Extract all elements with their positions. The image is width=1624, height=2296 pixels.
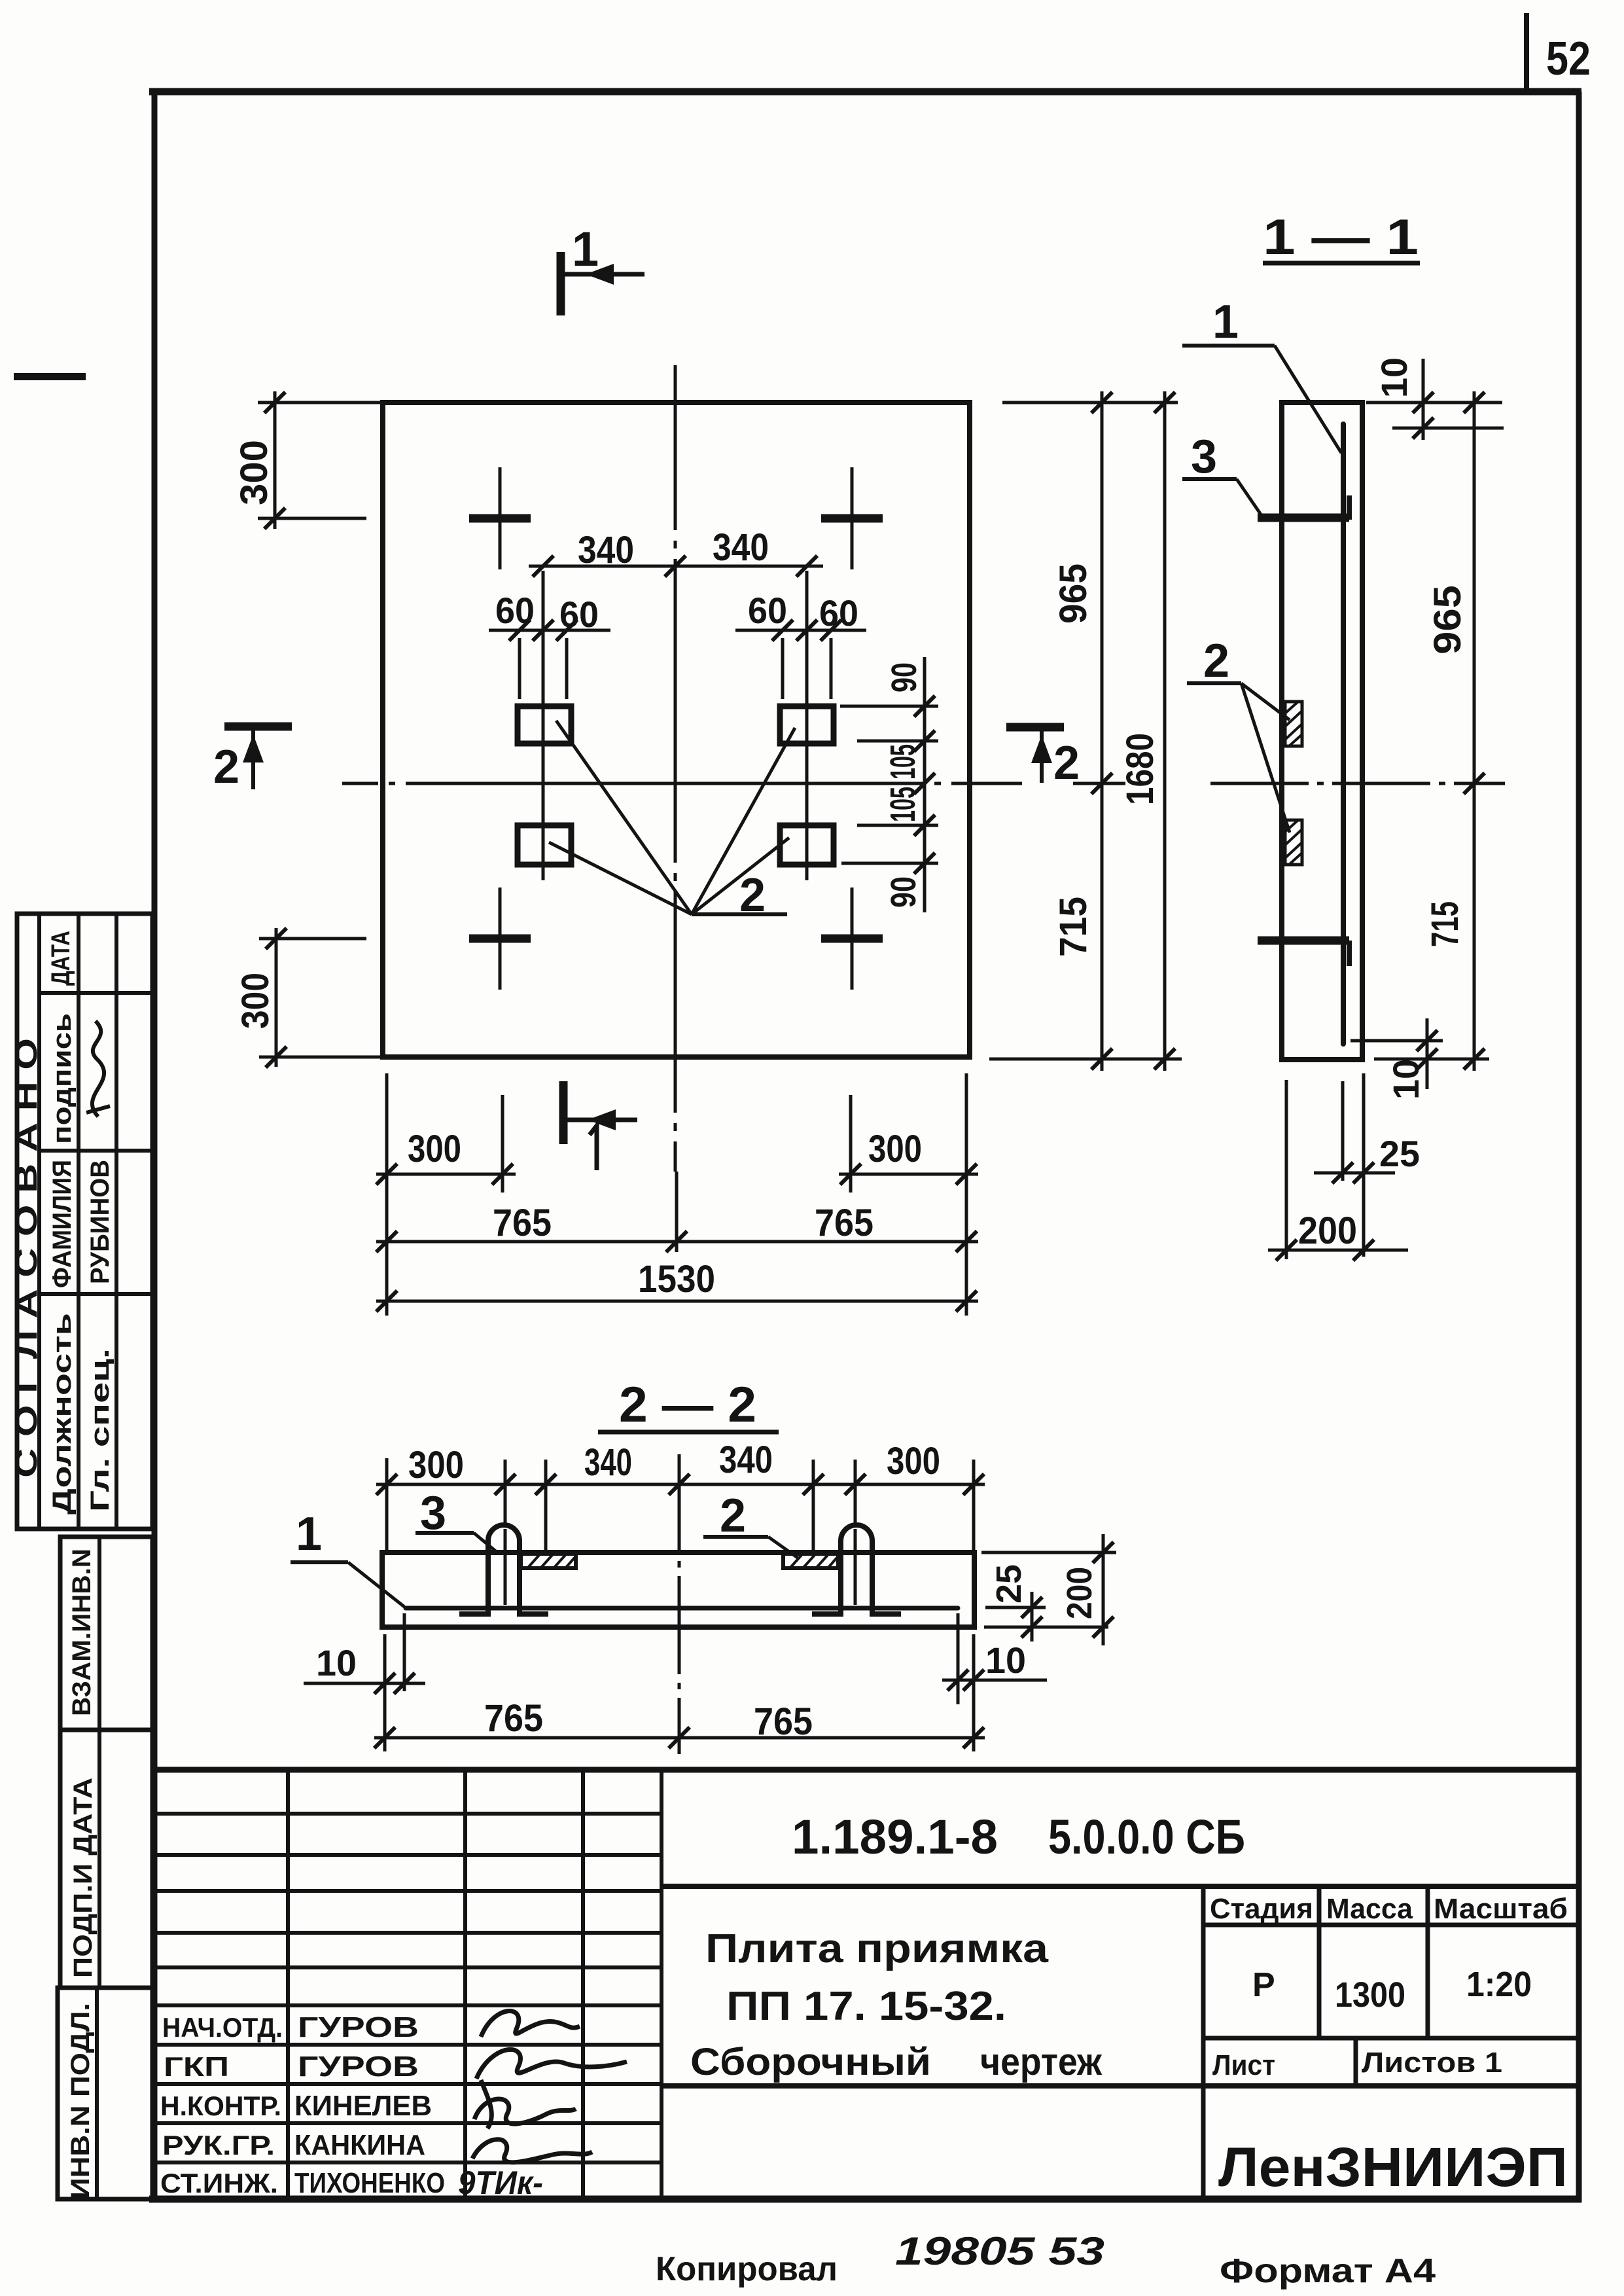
- svg-text:Масса: Масса: [1326, 1893, 1413, 1925]
- dimension 25 (section 2-2 right): [984, 1564, 1108, 1641]
- leader label 3 (section 1-1): [1182, 431, 1262, 516]
- dimension 10 (section 2-2 bottom right): [942, 1613, 1047, 1751]
- lifting loop item 3 left (section 2-2): [459, 1525, 548, 1614]
- anchor cross top-right: [821, 467, 883, 569]
- section 1-1 title: [1263, 209, 1420, 265]
- svg-text:25: 25: [1379, 1133, 1420, 1174]
- svg-text:5.0.0.0 СБ: 5.0.0.0 СБ: [1048, 1810, 1245, 1864]
- left margin black mark: [14, 373, 86, 380]
- dimension 60/60 left: [489, 590, 610, 699]
- svg-text:300: 300: [887, 1440, 940, 1482]
- svg-text:200: 200: [1060, 1567, 1099, 1619]
- leader lines to embed holes (item 2): [549, 721, 795, 914]
- svg-text:ГУРОВ: ГУРОВ: [298, 2051, 419, 2083]
- extension lines (section 1-1 left dims): [989, 403, 1182, 1059]
- svg-text:10: 10: [316, 1642, 357, 1683]
- loop axis lines (section 2-2): [505, 1529, 855, 1605]
- dimension 10 (section 1-1 bottom right): [1350, 1018, 1489, 1100]
- svg-text:РУБИНОВ: РУБИНОВ: [86, 1160, 115, 1284]
- anchor cross top-left: [469, 467, 531, 569]
- section mark 2 (left): [213, 726, 292, 793]
- section 1-1 slab outline: [1282, 403, 1362, 1060]
- inventory box ПОДП.И ДАТА: [60, 1730, 152, 1988]
- svg-text:ПОДП.И ДАТА: ПОДП.И ДАТА: [69, 1778, 97, 1978]
- svg-text:300: 300: [868, 1128, 922, 1170]
- dimension 1680 (section 1-1 left outer): [1119, 391, 1175, 1071]
- svg-text:340: 340: [578, 529, 634, 571]
- dimension 25 (section 1-1 bottom): [1314, 1073, 1420, 1257]
- svg-text:2: 2: [213, 741, 239, 793]
- embed plate item 2 left (section 2-2, hatched): [521, 1554, 576, 1568]
- svg-text:340: 340: [713, 526, 769, 569]
- svg-text:1: 1: [1212, 296, 1239, 348]
- angle item 3 bottom (section 1-1): [1258, 941, 1349, 966]
- svg-text:Плита приямка: Плита приямка: [705, 1926, 1049, 1971]
- stamp signature squiggle: [86, 1021, 110, 1117]
- hole axis line left: [542, 571, 545, 880]
- row Нач.отд. Гуров: [162, 2011, 419, 2043]
- row ГКП Гуров: [164, 2051, 419, 2083]
- section 2-2 slab outline: [382, 1552, 974, 1627]
- rebar mesh item 1 (section 2-2): [406, 1606, 958, 1611]
- svg-text:200: 200: [1298, 1210, 1357, 1252]
- svg-text:1300: 1300: [1335, 1975, 1405, 2015]
- extension lines (section 2-2 top): [387, 1458, 974, 1550]
- embed hole bottom-right: [780, 825, 834, 865]
- svg-text:Лист: Лист: [1212, 2049, 1275, 2081]
- svg-text:340: 340: [584, 1441, 632, 1484]
- svg-text:Должность: Должность: [48, 1313, 77, 1515]
- svg-text:Р: Р: [1252, 1966, 1275, 2004]
- svg-text:КАНКИНА: КАНКИНА: [294, 2129, 425, 2161]
- title block left table grid: [156, 1770, 662, 2199]
- svg-text:2 — 2: 2 — 2: [619, 1377, 756, 1433]
- svg-text:1.189.1-8: 1.189.1-8: [792, 1810, 998, 1864]
- svg-text:60: 60: [495, 590, 535, 631]
- plan horizontal centerline: [342, 782, 1022, 785]
- svg-text:9ТИк-: 9ТИк-: [458, 2164, 543, 2201]
- svg-text:1: 1: [572, 222, 599, 276]
- svg-text:1530: 1530: [638, 1258, 715, 1300]
- row Ст.инж. Тихоненко: [160, 2164, 543, 2201]
- angle item 3 top (section 1-1): [1258, 495, 1349, 520]
- plate outline (plan): [383, 403, 970, 1057]
- svg-text:715: 715: [1424, 901, 1466, 947]
- leader label 3 (section 2-2): [415, 1487, 497, 1552]
- svg-text:ГКП: ГКП: [164, 2051, 229, 2082]
- section mark 2 (right): [1006, 727, 1080, 789]
- hole axis line right: [805, 571, 809, 880]
- svg-text:340: 340: [719, 1439, 773, 1481]
- inventory box ИНВ.N ПОДЛ.: [58, 1988, 152, 2199]
- signature squiggles: [472, 2011, 627, 2162]
- section 1-1 centerline: [1210, 782, 1505, 785]
- svg-text:765: 765: [493, 1202, 552, 1244]
- section 2-2 title: [598, 1377, 779, 1433]
- svg-text:1: 1: [296, 1508, 322, 1560]
- svg-text:Сборочный: Сборочный: [690, 2041, 931, 2083]
- svg-text:НАЧ.ОТД.: НАЧ.ОТД.: [162, 2012, 283, 2043]
- svg-text:2: 2: [1203, 635, 1229, 687]
- svg-text:РУК.ГР.: РУК.ГР.: [162, 2130, 275, 2161]
- dimension 90/105/105/90 (plan right): [840, 657, 938, 912]
- dimension 300 (plan top-left): [233, 391, 381, 529]
- svg-text:105: 105: [883, 744, 923, 780]
- svg-text:ЛенЗНИИЭП: ЛенЗНИИЭП: [1218, 2136, 1568, 2198]
- svg-text:715: 715: [1052, 897, 1095, 957]
- svg-text:Листов 1: Листов 1: [1362, 2047, 1502, 2079]
- inventory box ВЗАМ.ИНВ.N: [60, 1537, 152, 1730]
- dimension 1530 (below plan): [376, 1258, 978, 1312]
- svg-text:10: 10: [985, 1640, 1026, 1681]
- dimension 965/715 (section 1-1 left): [1052, 391, 1112, 1071]
- svg-text:765: 765: [484, 1697, 543, 1740]
- section mark 1 (bottom): [563, 1081, 637, 1170]
- svg-text:С О Г Л А С О В А Н О: С О Г Л А С О В А Н О: [9, 1038, 43, 1478]
- drawing title Сборочный чертеж: [690, 2041, 1103, 2083]
- embed hole bottom-left: [518, 825, 571, 865]
- leader label 1 (section 1-1): [1182, 296, 1341, 453]
- svg-text:300: 300: [408, 1444, 464, 1486]
- svg-text:ФАМИЛИЯ: ФАМИЛИЯ: [48, 1160, 77, 1288]
- svg-text:965: 965: [1052, 564, 1095, 624]
- dimension 340/340 (plan top): [529, 526, 823, 577]
- svg-text:подпись: подпись: [48, 1013, 77, 1144]
- leader label 1 (section 2-2): [291, 1508, 404, 1607]
- svg-text:Стадия: Стадия: [1210, 1893, 1313, 1925]
- svg-text:Гл. спец.: Гл. спец.: [86, 1348, 115, 1512]
- title block divider under code: [662, 1884, 1579, 1889]
- title block top edge: [152, 1767, 1579, 1773]
- dimension 300/340/340/300 (section 2-2 top): [376, 1439, 985, 1495]
- svg-text:10: 10: [1385, 1059, 1426, 1100]
- svg-text:90: 90: [884, 876, 923, 908]
- svg-text:1 — 1: 1 — 1: [1263, 209, 1419, 265]
- svg-text:2: 2: [739, 869, 766, 922]
- svg-text:765: 765: [815, 1202, 874, 1244]
- svg-text:105: 105: [883, 787, 923, 822]
- dimension 300 (plan bottom-left): [234, 928, 381, 1067]
- page number tab tick: [1524, 13, 1529, 92]
- anchor cross bottom-left: [469, 888, 531, 990]
- dimension 765/765 (section 2-2 bottom): [374, 1697, 985, 1748]
- leader label 2 (section 1-1): [1187, 635, 1290, 833]
- dimension 300 (below plan, right): [839, 1095, 978, 1193]
- svg-text:19805 53: 19805 53: [895, 2229, 1104, 2273]
- svg-text:ПП 17. 15-32.: ПП 17. 15-32.: [726, 1984, 1006, 2029]
- title block divider under titles: [662, 2083, 1579, 2089]
- svg-text:1680: 1680: [1119, 733, 1161, 805]
- dimension 10 (section 2-2 bottom left): [304, 1613, 425, 1751]
- svg-text:3: 3: [1191, 431, 1217, 483]
- svg-text:чертеж: чертеж: [980, 2041, 1103, 2083]
- svg-text:Формат А4: Формат А4: [1220, 2252, 1436, 2290]
- svg-text:ДАТА: ДАТА: [46, 931, 75, 986]
- anchor cross bottom-right: [821, 888, 883, 990]
- svg-text:2: 2: [720, 1490, 746, 1542]
- section 2-2 centerline: [678, 1454, 681, 1754]
- svg-text:СТ.ИНЖ.: СТ.ИНЖ.: [160, 2168, 278, 2198]
- svg-text:Масштаб: Масштаб: [1434, 1893, 1568, 1925]
- title block right columns: [1203, 1886, 1579, 2199]
- lifting loop right (section 2-2): [812, 1525, 901, 1614]
- svg-text:ИНВ.N ПОДЛ.: ИНВ.N ПОДЛ.: [66, 2003, 95, 2199]
- svg-text:КИНЕЛЕВ: КИНЕЛЕВ: [294, 2090, 432, 2122]
- row Рук.гр. Канкина: [162, 2129, 425, 2161]
- plan vertical centerline: [674, 365, 677, 1172]
- svg-text:52: 52: [1546, 33, 1591, 85]
- dimension 765/765 (below plan): [376, 1202, 978, 1252]
- embed plate item 2 right (section 2-2, hatched): [783, 1554, 838, 1568]
- embed plate item 2 upper (section 1-1, hatched): [1285, 702, 1302, 746]
- svg-text:ТИХОНЕНКО: ТИХОНЕНКО: [294, 2167, 445, 2199]
- leader label 2 (section 2-2): [703, 1490, 798, 1558]
- svg-text:1:20: 1:20: [1466, 1965, 1532, 2004]
- dimension 200 (section 1-1 bottom): [1268, 1080, 1408, 1261]
- dimension 200 (section 2-2 right): [981, 1534, 1116, 1645]
- svg-text:2: 2: [1053, 737, 1080, 789]
- svg-text:ВЗАМ.ИНВ.N: ВЗАМ.ИНВ.N: [67, 1549, 96, 1716]
- dimension 60/60 right: [735, 590, 866, 699]
- svg-text:60: 60: [559, 594, 599, 635]
- svg-text:965: 965: [1426, 585, 1469, 655]
- svg-text:90: 90: [885, 662, 924, 692]
- svg-text:300: 300: [234, 973, 277, 1029]
- dimension 300 (below plan, left): [376, 1095, 516, 1193]
- svg-text:60: 60: [748, 590, 787, 631]
- approval stamp box (СОГЛАСОВАНО): [17, 914, 152, 1529]
- dimension 965/715 (section 1-1 right): [1424, 391, 1485, 1071]
- svg-text:300: 300: [408, 1128, 461, 1170]
- svg-text:60: 60: [819, 592, 858, 634]
- rebar mesh item 1 (section 1-1): [1341, 424, 1346, 1044]
- svg-text:ГУРОВ: ГУРОВ: [298, 2011, 419, 2043]
- svg-text:300: 300: [233, 440, 275, 505]
- dimension 10 (section 1-1 top right): [1366, 357, 1504, 440]
- embed hole top-left: [518, 706, 571, 744]
- embed hole top-right: [780, 706, 834, 744]
- svg-text:765: 765: [754, 1700, 813, 1743]
- embed plate item 2 lower (section 1-1, hatched): [1285, 820, 1302, 865]
- row Н.контр. Кинелев: [160, 2090, 432, 2122]
- svg-text:25: 25: [989, 1564, 1029, 1604]
- section mark 1 (top): [561, 222, 644, 315]
- svg-text:10: 10: [1373, 357, 1415, 398]
- svg-text:Н.КОНТР.: Н.КОНТР.: [160, 2090, 281, 2121]
- svg-text:Копировал: Копировал: [656, 2250, 838, 2288]
- leader label 2 (plan): [692, 869, 787, 922]
- extension lines below plan: [387, 1073, 966, 1316]
